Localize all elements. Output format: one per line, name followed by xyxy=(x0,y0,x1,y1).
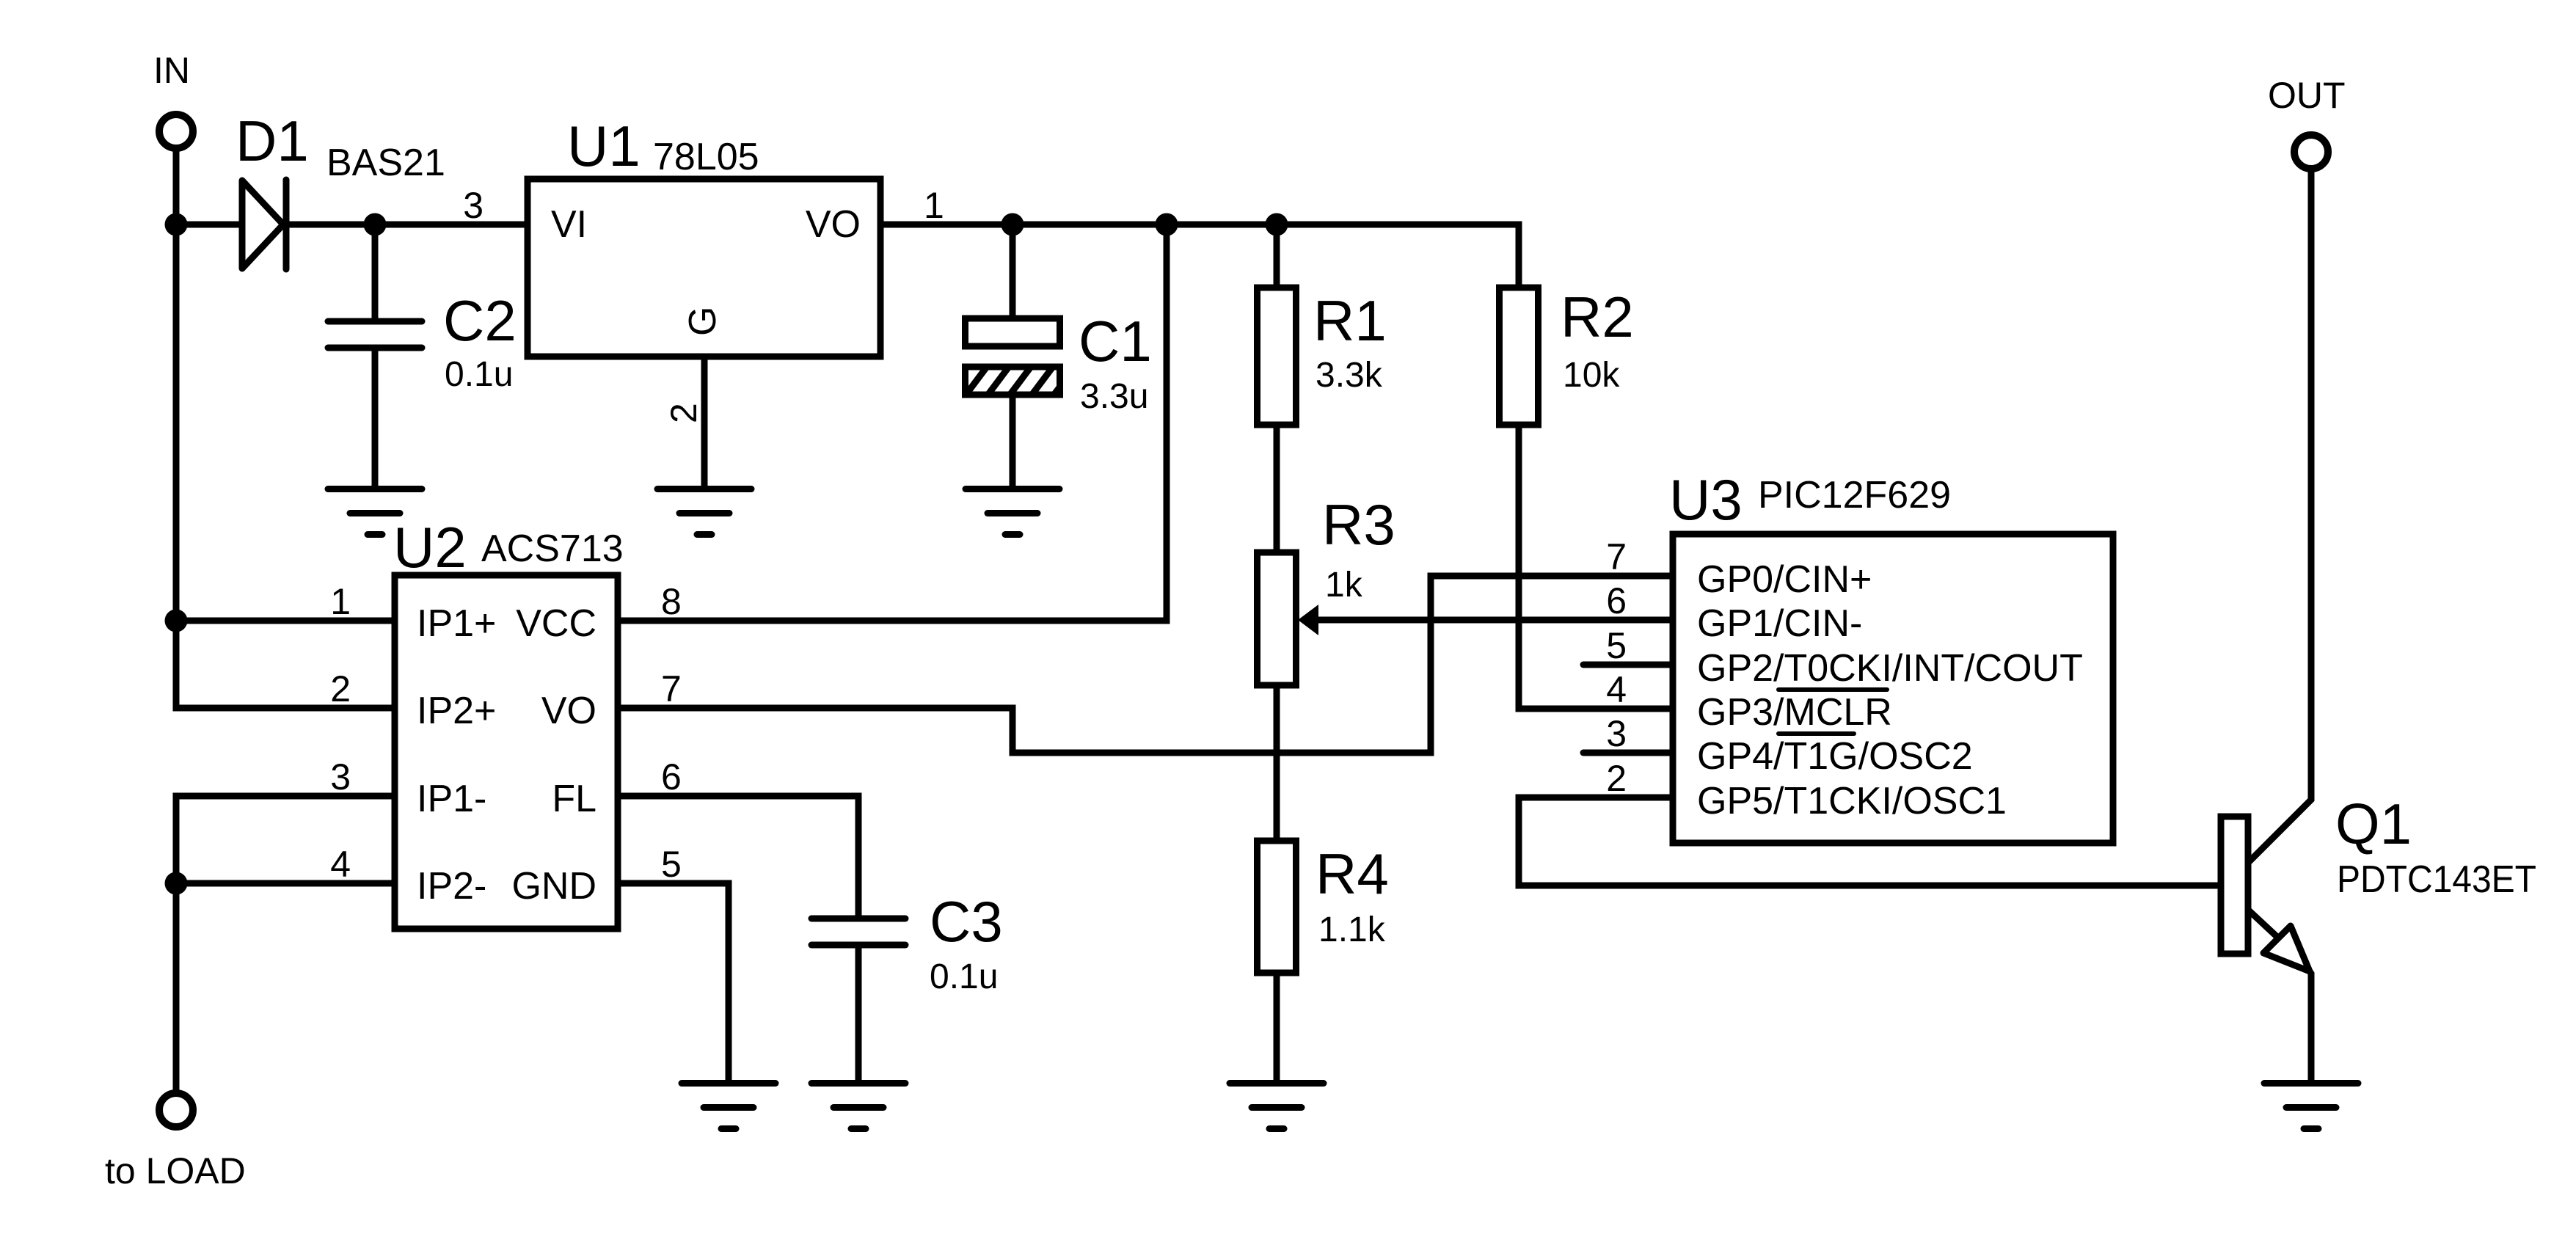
capacitor C2 xyxy=(328,318,422,325)
junction node C2 tap xyxy=(364,213,387,236)
junction node VCC rail xyxy=(1156,213,1178,236)
wire C2 top lead xyxy=(372,224,379,318)
svg-text:3.3u: 3.3u xyxy=(1080,377,1148,416)
IC U3 box xyxy=(1673,534,2113,843)
svg-text:5: 5 xyxy=(661,844,682,885)
resistor R2 xyxy=(1500,288,1539,425)
overline T1G xyxy=(1778,731,1854,736)
ground (U2 GND) xyxy=(682,1080,776,1087)
wire U3 pin2 GP5 to Q1 base xyxy=(1519,797,2221,886)
diode D1 xyxy=(242,180,283,269)
svg-text:R1: R1 xyxy=(1313,288,1387,353)
ground (U1 G) xyxy=(657,486,751,492)
wire U3 pin5 stub xyxy=(1583,662,1673,668)
terminal IN xyxy=(159,114,193,148)
svg-text:R3: R3 xyxy=(1322,492,1395,557)
svg-text:7: 7 xyxy=(1606,536,1627,577)
svg-text:6: 6 xyxy=(661,756,682,797)
svg-text:10k: 10k xyxy=(1563,356,1620,395)
potentiometer R3 xyxy=(1258,552,1296,685)
junction node IN/D1 xyxy=(165,213,188,236)
svg-text:PIC12F629: PIC12F629 xyxy=(1758,474,1951,516)
svg-text:3: 3 xyxy=(330,756,351,797)
svg-text:Q1: Q1 xyxy=(2335,792,2412,856)
wire U2 GND pin5 xyxy=(618,883,729,1080)
wire U2 VO pin7 to U3 GP0 pin7 xyxy=(618,576,1673,753)
svg-text:1: 1 xyxy=(924,185,944,226)
wire Q1 emitter xyxy=(2248,910,2280,940)
terminal OUT xyxy=(2294,135,2328,169)
wire D1 cathode to U1 VI xyxy=(286,222,528,228)
svg-text:VO: VO xyxy=(806,203,861,246)
svg-text:2: 2 xyxy=(663,403,704,423)
IC U2 box xyxy=(395,575,618,929)
wire Q1 collector to OUT xyxy=(2248,170,2311,863)
wire C3 bottom lead xyxy=(855,948,862,1080)
svg-text:to LOAD: to LOAD xyxy=(105,1150,246,1191)
svg-text:U2: U2 xyxy=(393,515,467,580)
svg-text:5: 5 xyxy=(1606,625,1627,666)
ground (R4) xyxy=(1230,1080,1324,1087)
wire U2 pin4 IP2- xyxy=(176,880,395,887)
junction node toLOAD/pin4 xyxy=(165,872,188,895)
resistor R1 xyxy=(1258,288,1296,425)
svg-text:U1: U1 xyxy=(567,114,641,178)
svg-text:1.1k: 1.1k xyxy=(1318,910,1386,949)
ground (C3) xyxy=(811,1080,905,1087)
junction node U2 pin1 tap xyxy=(165,610,188,632)
svg-text:1: 1 xyxy=(330,581,351,622)
wire C1 top lead xyxy=(1010,224,1016,318)
svg-text:7: 7 xyxy=(661,668,682,709)
wire U1 VO 5V rail xyxy=(880,224,1519,288)
svg-text:VCC: VCC xyxy=(516,602,596,645)
svg-text:ACS713: ACS713 xyxy=(481,527,624,570)
svg-text:0.1u: 0.1u xyxy=(930,957,998,996)
wire U1 G lead xyxy=(701,357,708,489)
wire R2 bottom to U3 pin4 GP3 xyxy=(1519,425,1673,709)
ground (Q1) xyxy=(2264,1080,2358,1087)
wire C2 bottom lead xyxy=(372,351,379,489)
wire R4 bottom lead xyxy=(1274,973,1280,1080)
R3 wiper arrowhead xyxy=(1298,605,1318,635)
capacitor C3 xyxy=(811,916,905,922)
svg-text:3.3k: 3.3k xyxy=(1316,356,1383,395)
wire VCC rail to U2 pin8 xyxy=(618,224,1167,621)
overline MCLR xyxy=(1778,687,1887,692)
svg-text:VO: VO xyxy=(541,690,596,732)
svg-text:G: G xyxy=(682,307,724,336)
wire IN rail down to U2 IP2+ xyxy=(176,149,395,708)
svg-text:VI: VI xyxy=(551,203,587,246)
svg-text:IP1+: IP1+ xyxy=(417,602,496,645)
svg-text:4: 4 xyxy=(1606,669,1627,710)
svg-text:BAS21: BAS21 xyxy=(326,142,445,184)
svg-text:6: 6 xyxy=(1606,580,1627,621)
junction node R1 top xyxy=(1266,213,1288,236)
svg-text:GP2/T0CKI/INT/COUT: GP2/T0CKI/INT/COUT xyxy=(1697,647,2083,690)
transistor Q1 base bar xyxy=(2221,817,2248,954)
wire U3 pin3 stub xyxy=(1583,750,1673,756)
svg-text:GP0/CIN+: GP0/CIN+ xyxy=(1697,558,1872,601)
ground (C1) xyxy=(966,486,1059,492)
svg-text:GP5/T1CKI/OSC1: GP5/T1CKI/OSC1 xyxy=(1697,780,2007,822)
svg-text:78L05: 78L05 xyxy=(653,136,759,178)
svg-text:2: 2 xyxy=(330,668,351,709)
svg-text:C2: C2 xyxy=(443,288,517,353)
wire U2 pin3 IP1- to LOAD rail xyxy=(176,796,395,1089)
svg-text:3: 3 xyxy=(1606,713,1627,754)
svg-text:C3: C3 xyxy=(930,889,1003,954)
wire U2 pin1 IP1+ xyxy=(176,618,395,624)
svg-text:C1: C1 xyxy=(1079,309,1152,373)
wire R3 to R4 xyxy=(1274,685,1280,841)
capacitor C1 bottom plate (hatched) xyxy=(954,352,1086,411)
svg-text:8: 8 xyxy=(661,581,682,622)
svg-text:3: 3 xyxy=(463,185,484,226)
svg-text:R2: R2 xyxy=(1561,285,1634,349)
junction node C1 tap xyxy=(1001,213,1024,236)
svg-text:GND: GND xyxy=(511,865,596,908)
svg-text:IP2-: IP2- xyxy=(417,865,486,908)
svg-text:IP2+: IP2+ xyxy=(417,690,496,732)
wire R3 wiper to U3 pin6 GP1 xyxy=(1313,617,1673,624)
terminal to LOAD xyxy=(159,1093,193,1127)
svg-text:D1: D1 xyxy=(236,109,309,173)
svg-text:IP1-: IP1- xyxy=(417,778,486,820)
svg-text:1k: 1k xyxy=(1325,566,1363,605)
svg-text:IN: IN xyxy=(153,50,190,91)
svg-text:FL: FL xyxy=(552,778,596,820)
Q1 emitter arrowhead xyxy=(2263,926,2310,971)
wire R1 to R3 xyxy=(1274,425,1280,552)
svg-text:U3: U3 xyxy=(1669,467,1743,532)
svg-text:GP3/MCLR: GP3/MCLR xyxy=(1697,691,1892,734)
resistor R4 xyxy=(1258,841,1296,973)
svg-text:4: 4 xyxy=(330,844,351,885)
wire Q1 emitter to ground xyxy=(2310,971,2311,1080)
capacitor C1 top plate xyxy=(966,318,1060,346)
svg-text:GP4/T1G/OSC2: GP4/T1G/OSC2 xyxy=(1697,735,1973,778)
svg-text:R4: R4 xyxy=(1316,841,1389,906)
wire D1 anode xyxy=(176,222,242,228)
svg-text:OUT: OUT xyxy=(2268,75,2346,116)
svg-text:2: 2 xyxy=(1606,758,1627,799)
wire C1 bottom lead xyxy=(1010,395,1016,489)
ground (C2) xyxy=(328,486,422,492)
op-amp U1 regulator box xyxy=(528,179,880,357)
wire U2 FL pin6 to C3 xyxy=(618,796,858,919)
svg-text:PDTC143ET: PDTC143ET xyxy=(2337,858,2536,901)
svg-text:0.1u: 0.1u xyxy=(445,355,513,394)
svg-text:GP1/CIN-: GP1/CIN- xyxy=(1697,602,1862,645)
wire R1 top lead xyxy=(1274,224,1280,288)
